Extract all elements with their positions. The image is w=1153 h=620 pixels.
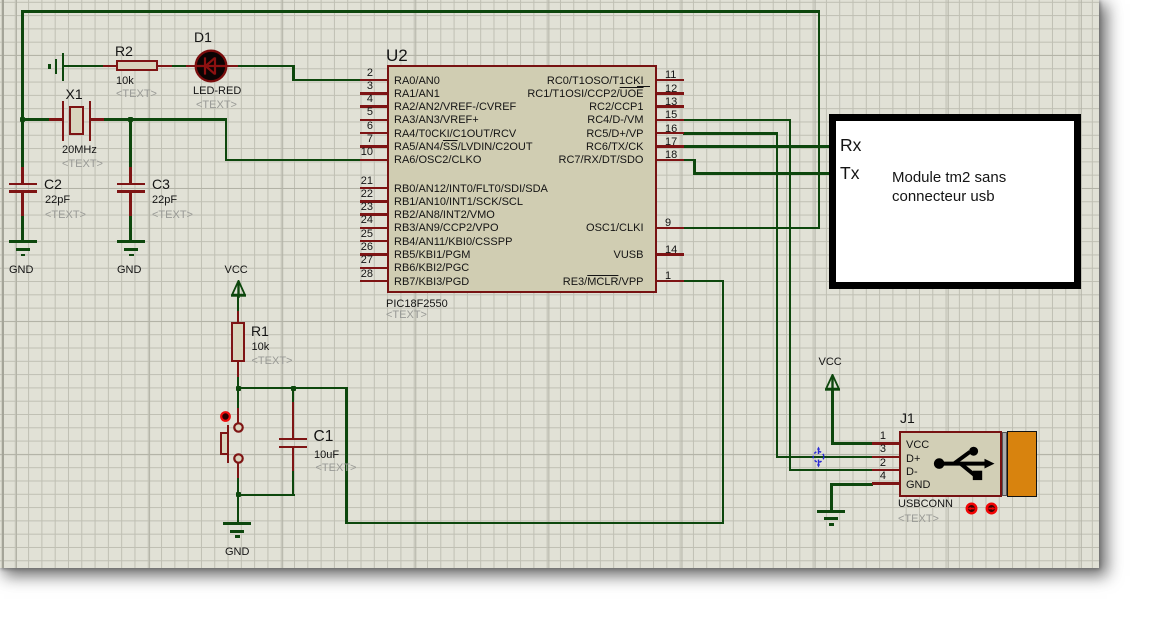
net label GND (C3) <box>117 265 141 276</box>
ground terminal (rotated) left of R2 <box>62 53 65 81</box>
value PIC18F2550 (U2) <box>386 299 448 310</box>
wire D- vertical <box>789 119 792 471</box>
wire node to button <box>237 387 240 409</box>
pin stub 28 (U2) <box>360 280 387 283</box>
pin label OSC1/CLKI (U2) <box>490 222 644 234</box>
pin label RC4/D-/VM (U2) <box>490 114 644 126</box>
button red actuator dot <box>220 411 231 422</box>
pin label D+ (J1) <box>906 453 920 465</box>
node Tx (module) <box>840 165 859 183</box>
pin stub 21 (U2) <box>360 187 387 190</box>
pin stub 14 (U2) <box>657 253 684 256</box>
pin label RC6/TX/CK (U2) <box>490 141 644 153</box>
label C1 <box>314 429 334 445</box>
wire pin17 Rx to module <box>683 145 833 148</box>
wire pin9 OSC1 horizontal <box>683 227 819 230</box>
value 22pF (C2) <box>45 195 70 206</box>
wire pin18 Tx stub <box>683 159 696 162</box>
pin number 25 (U2) <box>330 229 373 240</box>
J1 usb plug (orange) <box>1007 431 1037 498</box>
value 10uF (C1) <box>314 450 339 461</box>
LED D1 <box>186 65 196 68</box>
pin number 10 (U2) <box>330 147 373 158</box>
pin stub 18 (U2) <box>657 159 684 162</box>
wire button bottom to gnd <box>237 477 240 523</box>
wire R2 to D1 <box>171 65 187 68</box>
junction node R1 bottom <box>236 386 241 391</box>
capacitor C2 <box>21 167 24 184</box>
net label GND (C2) <box>9 265 33 276</box>
pin label RB2/AN8/INT2/VMO (U2) <box>394 209 495 221</box>
junction node C1 top <box>291 386 296 391</box>
wire J1 gnd vertical <box>830 483 833 510</box>
pin label RB4/AN11/KBI0/CSSPP (U2) <box>394 236 512 248</box>
pin label RA4/T0CKI/C1OUT/RCV (U2) <box>394 128 516 140</box>
pin number 1 (J1) <box>850 431 886 442</box>
wire VCC2 to J1 pin1 horizontal <box>831 442 873 445</box>
wire C1 bottom horizontal <box>237 494 295 497</box>
pin stub 4 (J1) <box>872 482 899 485</box>
placeholder text (C2) <box>45 210 86 221</box>
pin number 15 (U2) <box>665 110 677 121</box>
pin label RC5/D+/VP (U2) <box>490 128 644 140</box>
wire top loop horizontal (OSC1 net) <box>21 10 820 13</box>
origin marker (blue) <box>810 446 827 468</box>
pin number 9 (U2) <box>665 218 671 229</box>
placeholder text (R2) <box>116 89 157 100</box>
pin stub 27 (U2) <box>360 267 387 270</box>
junction node button bottom <box>236 492 241 497</box>
pin stub 2 (J1) <box>872 469 899 472</box>
pin stub 1 (U2) <box>657 280 684 283</box>
value 22pF (C3) <box>152 195 177 206</box>
pin stub 3 (J1) <box>872 456 899 459</box>
ground below C3 <box>117 240 145 243</box>
connector J1 body <box>899 431 1002 497</box>
label X1 <box>66 87 83 101</box>
pin number 23 (U2) <box>330 202 373 213</box>
pin label GND (J1) <box>906 479 930 491</box>
wire VCC2 vertical to J1 pin1 <box>831 389 834 445</box>
pin stub 23 (U2) <box>360 213 387 216</box>
wire right of C1 vertical <box>345 387 348 524</box>
pin number 3 (U2) <box>330 81 373 92</box>
pin label RA5/AN4/SS/LVDIN/C2OUT (U2) <box>394 141 533 153</box>
ground below C2 <box>9 240 37 243</box>
pin stub 13 (U2) <box>657 105 684 108</box>
net label VCC (R1) <box>225 265 248 276</box>
label J1 <box>900 411 915 425</box>
pin stub 17 (U2) <box>657 145 684 148</box>
pin label RA3/AN3/VREF+ (U2) <box>394 114 479 126</box>
placeholder text (R1) <box>252 356 293 367</box>
pin number 26 (U2) <box>330 242 373 253</box>
pin label VCC (J1) <box>906 439 929 451</box>
net label VCC (J1) <box>819 357 842 368</box>
pin number 5 (U2) <box>330 107 373 118</box>
pin stub 5 (U2) <box>360 119 387 122</box>
pin stub 22 (U2) <box>360 200 387 203</box>
IC U2 PIC18F2550 body <box>387 65 657 294</box>
pin number 6 (U2) <box>330 121 373 132</box>
label R2 <box>115 44 133 58</box>
pin label RE3/MCLR/VPP (U2) <box>490 276 644 288</box>
pin label VUSB (U2) <box>490 249 644 261</box>
wire crystal right to corner <box>103 118 227 121</box>
pin label RA1/AN1 (U2) <box>394 88 440 100</box>
wire C2 bottom lead green <box>21 215 24 242</box>
pin label RC1/T1OSI/CCP2/UOE (U2) <box>490 88 644 100</box>
wire C1 top lead green <box>292 387 295 403</box>
ground below J1 pin4 <box>817 510 845 513</box>
pin stub 11 (U2) <box>657 79 684 82</box>
wire Tx to module <box>693 172 833 175</box>
wire pin15 D- horizontal <box>683 119 791 122</box>
placeholder text (J1) <box>898 514 939 525</box>
placeholder text (C1) <box>316 463 357 474</box>
pin number 27 (U2) <box>330 255 373 266</box>
pin number 18 (U2) <box>665 150 677 161</box>
J1 metal shield strip <box>1002 432 1008 496</box>
pin stub 24 (U2) <box>360 227 387 230</box>
pin number 24 (U2) <box>330 215 373 226</box>
pin stub 4 (U2) <box>360 105 387 108</box>
value 10k (R2) <box>116 76 134 87</box>
pin stub 9 (U2) <box>657 227 684 230</box>
wire D1 to corner <box>237 65 295 68</box>
pin number 13 (U2) <box>665 97 677 108</box>
J1 mounting marker right <box>985 502 998 515</box>
button cap <box>220 432 229 455</box>
pin number 22 (U2) <box>330 189 373 200</box>
wire pin1 MCLR horizontal <box>683 280 724 283</box>
button top contact <box>233 422 244 433</box>
label R1 <box>251 324 269 338</box>
value 20MHz (X1) <box>62 145 97 156</box>
J1 mounting marker left <box>965 502 978 515</box>
pin number 21 (U2) <box>330 176 373 187</box>
pin label RB0/AN12/INT0/FLT0/SDI/SDA (U2) <box>394 183 548 195</box>
wire pin16 D+ horizontal <box>683 132 778 135</box>
pin label RA0/AN0 (U2) <box>394 75 440 87</box>
wire Tx vertical jog <box>693 159 696 175</box>
pin number 14 (U2) <box>665 245 677 256</box>
pin stub 1 (J1) <box>872 442 899 445</box>
pin stub 3 (U2) <box>360 92 387 95</box>
net label GND (button) <box>225 547 249 558</box>
button actuator bar <box>227 425 230 463</box>
wire VCC to R1 <box>237 295 240 313</box>
wire D+ vertical <box>776 132 779 458</box>
text Module tm2 sans connecteur usb <box>892 168 1006 207</box>
pin number 11 (U2) <box>665 70 676 81</box>
pin number 4 (U2) <box>330 94 373 105</box>
pin stub 2 (U2) <box>360 79 387 82</box>
wire gnd-terminal to R2 <box>62 65 104 68</box>
placeholder text (C3) <box>152 210 193 221</box>
label C3 <box>152 177 170 191</box>
label D1 <box>194 30 212 44</box>
power symbol VCC (J1 net) <box>825 374 840 392</box>
wire D+ to J1 pin3 <box>776 456 873 459</box>
pin stub 26 (U2) <box>360 253 387 256</box>
value LED-RED (D1) <box>193 86 241 97</box>
resistor R2 <box>103 65 117 68</box>
power symbol VCC (R1 net) <box>231 280 246 298</box>
pin label RA2/AN2/VREF-/CVREF (U2) <box>394 101 516 113</box>
pin stub 16 (U2) <box>657 132 684 135</box>
wire D- to J1 pin2 <box>789 469 873 472</box>
resistor R1 <box>237 311 240 323</box>
wire corner down to pin10 row <box>225 118 228 160</box>
overline extension after T1CKI <box>637 86 650 87</box>
value USBCONN (J1) <box>898 499 953 510</box>
pin number 2 (J1) <box>850 458 886 469</box>
wire C3 bottom lead green <box>129 215 132 242</box>
capacitor C1 <box>292 402 295 438</box>
wire R1 to node <box>237 376 240 389</box>
placeholder text (X1) <box>62 159 103 170</box>
pin number 1 (U2) <box>665 271 671 282</box>
wire C3 top lead green <box>129 118 132 168</box>
pin label RB7/KBI3/PGD (U2) <box>394 276 469 288</box>
wire C1 bottom lead green <box>292 470 295 496</box>
pin label RB6/KBI2/PGC (U2) <box>394 262 469 274</box>
wire right vertical x=818 <box>818 10 821 229</box>
pin label D- (J1) <box>906 466 918 478</box>
wire to pin 10 <box>225 159 362 162</box>
pin label RC7/RX/DT/SDO (U2) <box>490 154 644 166</box>
ground below button <box>223 522 251 525</box>
wire corner down to pin2 row <box>292 65 295 81</box>
pin label RC0/T1OSO/T1CKI (U2) <box>490 75 644 87</box>
label U2 <box>386 47 408 64</box>
wire to pin 2 <box>292 79 361 82</box>
pin label RB3/AN9/CCP2/VPO (U2) <box>394 222 499 234</box>
pin stub 12 (U2) <box>657 92 684 95</box>
pin number 7 (U2) <box>330 134 373 145</box>
pin number 12 (U2) <box>665 84 677 95</box>
label C2 <box>44 177 62 191</box>
pin number 4 (J1) <box>850 471 886 482</box>
wire R1 bottom node horizontal <box>237 387 347 390</box>
value 10k (R1) <box>252 342 270 353</box>
wire left vertical x=22 <box>21 10 24 120</box>
button bottom contact <box>233 453 244 464</box>
pin stub 6 (U2) <box>360 132 387 135</box>
pin stub 10 (U2) <box>360 159 387 162</box>
capacitor C3 <box>129 167 132 184</box>
junction node crystal right / C3 <box>128 117 133 122</box>
crystal X1 <box>49 118 63 121</box>
wire J1 pin4 gnd horizontal <box>830 483 873 486</box>
wire MCLR vertical down <box>722 280 725 524</box>
wire C2 top lead green <box>21 118 24 168</box>
J1 USB symbol <box>930 442 1000 487</box>
pin number 3 (J1) <box>850 444 886 455</box>
push button <box>237 408 240 423</box>
pin number 17 (U2) <box>665 137 677 148</box>
sheet left border line <box>2 0 4 568</box>
junction node crystal left <box>20 117 25 122</box>
placeholder text (D1) <box>196 100 237 111</box>
module tm2 annotation box <box>829 114 1081 289</box>
pin label RC2/CCP1 (U2) <box>490 101 644 113</box>
pin label RA6/OSC2/CLKO (U2) <box>394 154 481 166</box>
pin label RB1/AN10/INT1/SCK/SCL (U2) <box>394 196 523 208</box>
pin stub 15 (U2) <box>657 119 684 122</box>
wire crystal row left <box>21 118 50 121</box>
pin label RB5/KBI1/PGM (U2) <box>394 249 470 261</box>
pin stub 7 (U2) <box>360 145 387 148</box>
pin number 2 (U2) <box>330 68 373 79</box>
wire MCLR bottom horizontal <box>345 522 724 525</box>
pin number 28 (U2) <box>330 269 373 280</box>
node Rx (module) <box>840 137 861 155</box>
pin stub 25 (U2) <box>360 240 387 243</box>
pin number 16 (U2) <box>665 124 677 135</box>
placeholder text (U2) <box>386 310 427 321</box>
